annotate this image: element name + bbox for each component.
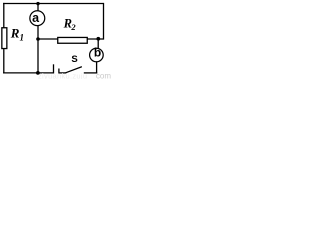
svg-text:R1: R1	[10, 25, 24, 42]
svg-text:a: a	[32, 11, 40, 25]
wire right	[103, 3, 105, 40]
resistor R1	[2, 28, 7, 49]
wire left upper	[3, 3, 5, 28]
battery plate short	[58, 69, 60, 74]
svg-text:R2: R2	[63, 16, 77, 32]
node top junction	[36, 2, 39, 5]
wire bottom middle	[59, 72, 66, 74]
meter b	[90, 48, 104, 62]
ammeter a	[30, 11, 45, 26]
wire ammeter to bottom	[37, 26, 39, 74]
node right junction	[96, 37, 100, 41]
node middle junction	[36, 37, 40, 41]
resistor R2	[58, 37, 88, 43]
wire b top stub	[97, 39, 99, 49]
svg-text:com: com	[96, 72, 111, 79]
node bottom junction	[36, 71, 40, 75]
svg-text:S: S	[71, 54, 77, 65]
wire top	[3, 3, 103, 5]
switch S blade	[66, 67, 82, 73]
wire ammeter top stub	[37, 4, 39, 11]
wire bottom right	[84, 72, 97, 74]
wire left lower	[3, 48, 5, 73]
svg-text:b: b	[94, 46, 101, 60]
wire middle branch	[38, 38, 104, 40]
wire b bottom stub	[96, 62, 98, 74]
wire bottom left	[3, 72, 54, 74]
battery plate long	[53, 64, 55, 73]
svg-text:ziyuanku.zuju: ziyuanku.zuju	[38, 71, 87, 79]
